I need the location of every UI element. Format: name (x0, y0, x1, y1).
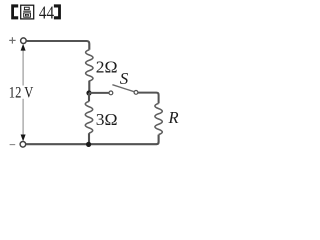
switch right contact (134, 91, 138, 95)
wire junction to switch (89, 92, 109, 94)
wire R to bottom (26, 135, 159, 145)
svg-text:2Ω: 2Ω (96, 58, 118, 77)
svg-text:3Ω: 3Ω (96, 110, 118, 129)
battery arrowhead up (21, 44, 26, 51)
junction node dot (86, 90, 91, 95)
wire 3ohm bottom (88, 133, 90, 144)
plus terminal label (9, 37, 15, 43)
battery arrow line 12V (22, 49, 24, 137)
switch left contact (109, 91, 113, 95)
switch blade (112, 85, 134, 92)
resistor R (155, 103, 162, 134)
title bracket left 【 (11, 4, 18, 19)
svg-text:12 V: 12 V (9, 84, 34, 102)
bottom-left terminal circle - (20, 142, 26, 148)
title character 圖 (21, 5, 34, 19)
resistor 3ohm (85, 101, 92, 133)
wire resistor to junction (88, 81, 90, 94)
battery arrowhead down (21, 135, 26, 142)
title bracket right 】 (54, 4, 61, 19)
svg-text:S: S (120, 69, 129, 88)
wire switch to right corner (138, 93, 159, 104)
resistor 2ohm (86, 50, 93, 81)
svg-text:R: R (168, 108, 179, 127)
wire top (27, 41, 90, 50)
bottom junction dot (86, 142, 91, 147)
top-left terminal circle + (21, 38, 27, 44)
wire 3ohm top (88, 93, 90, 101)
svg-text:44: 44 (39, 3, 54, 23)
minus terminal label (10, 144, 16, 146)
